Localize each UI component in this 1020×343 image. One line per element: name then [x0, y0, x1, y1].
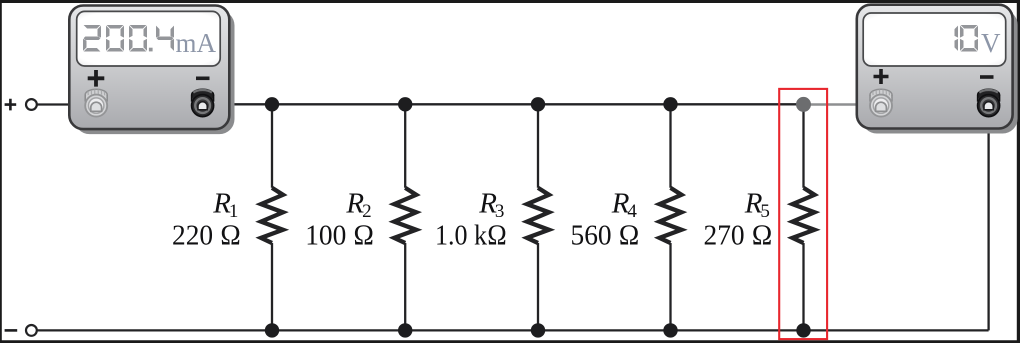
node R2 top	[398, 97, 412, 111]
left + source terminal	[5, 99, 37, 111]
voltmeter + mark	[874, 69, 889, 84]
wire: bottom rail	[37, 329, 989, 331]
node R5 top (gray probe node)	[796, 97, 811, 112]
voltmeter - mark	[980, 75, 994, 79]
junction dots bottom rail	[265, 323, 811, 337]
junction dots top rail	[265, 97, 678, 111]
voltmeter display	[863, 13, 1006, 66]
node R3 top	[531, 97, 545, 111]
node R2 bottom	[398, 323, 412, 337]
border frame	[0, 0, 1020, 3]
node R5 bottom	[796, 323, 810, 337]
ammeter shadow	[75, 11, 235, 135]
ammeter - terminal	[192, 89, 214, 116]
ammeter body	[69, 6, 229, 130]
ammeter + mark	[88, 70, 105, 87]
svg-text:560 Ω: 560 Ω	[571, 219, 640, 251]
svg-text:1.0 kΩ: 1.0 kΩ	[435, 219, 507, 251]
node R4 bottom	[663, 323, 677, 337]
voltmeter - terminal	[978, 89, 1000, 116]
ammeter U1	[69, 6, 234, 135]
wire: gray probe wire node to voltmeter +	[804, 103, 882, 105]
red highlight box around R5	[779, 89, 827, 339]
left - source terminal	[5, 325, 37, 336]
voltmeter reading 10	[955, 25, 979, 52]
node R1 top	[265, 97, 279, 111]
voltmeter body	[857, 5, 1013, 129]
node R3 bottom	[531, 323, 545, 337]
ammeter display	[77, 11, 221, 66]
node R4 top	[663, 97, 677, 111]
resistor R1	[261, 104, 283, 330]
ammeter reading 200.4	[83, 25, 174, 52]
svg-text:V: V	[981, 28, 1001, 58]
ammeter - mark	[196, 77, 210, 81]
svg-text:270 Ω: 270 Ω	[704, 219, 773, 251]
wire: left + terminal to ammeter	[37, 103, 96, 105]
ammeter + terminal	[85, 89, 107, 116]
voltmeter U2	[857, 5, 1018, 134]
svg-text:mA: mA	[176, 28, 217, 58]
voltmeter shadow	[862, 10, 1018, 134]
resistor R4	[660, 104, 682, 330]
resistor R2	[394, 104, 416, 330]
resistor R5	[793, 104, 815, 330]
wire: top rail ammeter to node R5	[203, 103, 804, 105]
voltmeter + terminal	[870, 89, 892, 116]
svg-text:100 Ω: 100 Ω	[305, 219, 374, 251]
node R1 bottom	[265, 323, 279, 337]
resistor R3	[527, 104, 549, 330]
wire: voltmeter - down to bottom rail	[987, 104, 989, 330]
svg-text:220 Ω: 220 Ω	[172, 219, 241, 251]
